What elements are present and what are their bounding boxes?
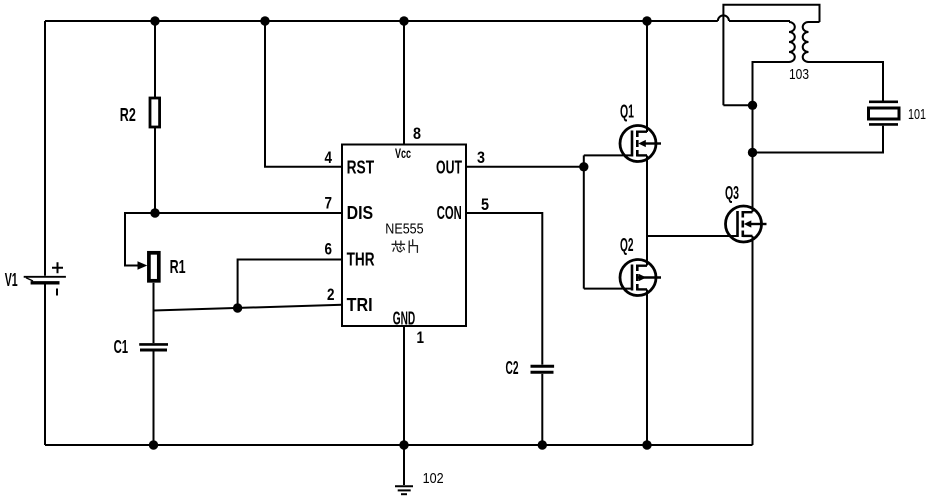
transformer T 103 primary winding xyxy=(789,22,795,62)
wire crystal bottom to Q3 drain node xyxy=(753,126,884,153)
svg-text:C1: C1 xyxy=(114,337,129,357)
wire OUT pin 3 xyxy=(466,166,584,168)
Q3 body arrow xyxy=(744,220,752,227)
wire DIS pin 7 to R1 wiper xyxy=(125,213,342,266)
wire left rail upper xyxy=(44,21,46,276)
wire R2 bottom lead to DIS line xyxy=(154,128,156,214)
Q2 body arrow xyxy=(639,274,647,281)
node: R2 / DIS xyxy=(150,208,159,217)
ground 102 symbol xyxy=(395,445,413,494)
node: OUT / gate net xyxy=(579,162,588,171)
svg-text:Q3: Q3 xyxy=(725,183,739,203)
wire transformer secondary bottom lead to crystal xyxy=(809,62,884,101)
svg-text:4: 4 xyxy=(325,148,333,167)
wire GND pin 1 to bottom rail xyxy=(403,326,405,445)
chip label 芯片 (drawn strokes) xyxy=(392,240,417,253)
node: RST riser / top rail xyxy=(260,16,269,25)
wire Q1 drain to top rail xyxy=(646,21,648,132)
capacitor C2 plates xyxy=(531,366,555,372)
transistor Q1 (NMOS) xyxy=(620,126,661,162)
wire RST pin 4 to top rail xyxy=(265,21,342,167)
svg-text:Q2: Q2 xyxy=(620,235,634,255)
wire top rail xyxy=(45,20,718,22)
wire Q1 source to Q2 drain xyxy=(646,156,648,266)
svg-text:7: 7 xyxy=(325,194,333,213)
svg-text:6: 6 xyxy=(325,240,333,259)
battery V1 minus tick xyxy=(56,289,58,296)
svg-text:RST: RST xyxy=(347,158,375,178)
wire transformer primary feed over rail xyxy=(723,5,819,106)
transistor Q2 (PMOS) xyxy=(620,260,661,296)
crystal 101 xyxy=(869,102,900,125)
svg-text:DIS: DIS xyxy=(347,203,374,223)
wire TRI pin 2 slanted to R1 bottom xyxy=(154,305,343,311)
wire left rail lower xyxy=(44,284,46,445)
wire transformer primary bottom lead xyxy=(753,62,790,105)
svg-text:1: 1 xyxy=(417,328,425,347)
svg-text:8: 8 xyxy=(413,124,421,143)
wire Q2 drain node to Q3 gate xyxy=(647,235,738,237)
wire Q1 gate lead xyxy=(584,154,632,156)
svg-text:C2: C2 xyxy=(506,358,519,378)
svg-text:V1: V1 xyxy=(5,270,18,290)
svg-text:102: 102 xyxy=(423,470,444,487)
wire C1 bottom to bottom rail xyxy=(153,351,155,445)
wire CON pin 5 to C2 xyxy=(466,213,542,365)
wire Q2 gate lead xyxy=(584,288,632,290)
node: GND / bottom rail xyxy=(399,440,408,449)
battery V1 plates xyxy=(24,277,66,283)
transformer T 103 secondary winding xyxy=(803,22,809,62)
transistor Q3 (NMOS) xyxy=(726,206,767,242)
resistor R1 body (potentiometer) xyxy=(149,253,159,281)
node: C2 / bottom rail xyxy=(538,440,547,449)
svg-text:Q1: Q1 xyxy=(620,102,634,122)
svg-text:GND: GND xyxy=(393,309,416,329)
svg-text:103: 103 xyxy=(789,66,809,83)
wire Q3 source to bottom rail xyxy=(752,236,754,445)
node: Q2 source / bottom rail xyxy=(642,440,651,449)
resistor R2 body xyxy=(150,98,160,127)
battery V1 plus sign xyxy=(52,262,63,273)
R1 wiper arrowhead xyxy=(138,261,148,270)
svg-text:THR: THR xyxy=(347,250,375,270)
svg-text:R2: R2 xyxy=(120,105,136,125)
svg-text:3: 3 xyxy=(477,148,485,167)
wire R1 bottom to C1 xyxy=(153,283,155,343)
node: Vcc / top rail xyxy=(399,16,408,25)
node: THR / TRI xyxy=(233,303,242,312)
node: crystal return / Q3 drain xyxy=(748,148,757,157)
wire bottom rail xyxy=(45,444,753,446)
wire primary feed bottom to Q3 drain node xyxy=(723,104,752,106)
wire top rail right segment xyxy=(729,20,790,22)
capacitor C1 plates xyxy=(139,344,168,350)
svg-text:5: 5 xyxy=(481,195,489,214)
wire hop over vertical at transformer feed xyxy=(718,15,729,21)
svg-text:101: 101 xyxy=(908,106,926,123)
wire Q3 drain vertical xyxy=(752,105,754,212)
node: primary bottom / Q3 drain xyxy=(748,101,757,110)
wire transformer secondary top lead xyxy=(809,21,820,23)
wire R2 top lead xyxy=(154,21,156,98)
svg-text:R1: R1 xyxy=(170,257,186,277)
NE555 chip U1 box xyxy=(342,145,466,327)
svg-text:2: 2 xyxy=(327,285,335,304)
node: C1 / bottom rail xyxy=(149,440,158,449)
wire OUT node vertical xyxy=(583,155,585,288)
svg-text:CON: CON xyxy=(437,203,462,223)
svg-text:Vcc: Vcc xyxy=(395,145,411,161)
wire Vcc pin 8 stub xyxy=(403,21,405,145)
svg-text:OUT: OUT xyxy=(436,158,462,178)
Q1 body arrow xyxy=(638,140,646,147)
svg-text:NE555: NE555 xyxy=(385,222,423,238)
wire THR pin 6 down to TRI net xyxy=(238,260,342,309)
node: Q1 drain / top rail xyxy=(642,16,651,25)
svg-text:TRI: TRI xyxy=(347,295,373,315)
wire Q2 source to bottom rail xyxy=(646,290,648,446)
wire C2 bottom to bottom rail xyxy=(541,374,543,445)
node: R2 / top rail xyxy=(150,16,159,25)
